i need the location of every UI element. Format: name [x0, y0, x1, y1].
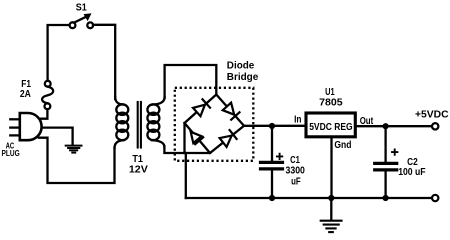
- svg-text:3300: 3300: [286, 166, 306, 177]
- svg-text:Diode: Diode: [227, 61, 255, 72]
- svg-text:S1: S1: [76, 3, 88, 14]
- diode D2 (upper-right): [223, 103, 240, 120]
- diode D4 (lower-right): [220, 130, 237, 147]
- svg-text:Gnd: Gnd: [334, 140, 351, 151]
- transformer T1: [115, 97, 165, 148]
- junction dot (In rail / C1): [269, 123, 275, 129]
- junction dot (Out rail / C2): [383, 123, 389, 129]
- svg-text:7805: 7805: [319, 98, 343, 109]
- regulator U1 box: [306, 113, 355, 137]
- junction dot (bottom rail / ground): [328, 195, 334, 201]
- svg-text:PLUG: PLUG: [2, 149, 20, 158]
- AC plug body: [20, 113, 42, 140]
- wire plug to chassis ground: [42, 128, 73, 145]
- capacitor C2: [375, 126, 398, 198]
- wire U1 gnd down: [330, 138, 332, 197]
- secondary winding: [147, 104, 159, 115]
- svg-text:T1: T1: [132, 154, 143, 165]
- wire secondary bottom to bridge: [164, 146, 210, 153]
- fuse F1: [42, 81, 53, 109]
- wire U1 out to +5VDC terminal: [358, 125, 431, 127]
- svg-text:2A: 2A: [20, 89, 31, 100]
- svg-text:12V: 12V: [129, 165, 148, 176]
- svg-text:U1: U1: [325, 87, 335, 98]
- primary bottom lead: [115, 140, 125, 148]
- capacitor C1: [261, 126, 283, 198]
- secondary top lead: [152, 97, 165, 105]
- primary winding: [116, 104, 128, 115]
- plug prong 2: [10, 126, 19, 128]
- diode D1 (upper-left): [193, 99, 210, 116]
- wire bridge left vertex down: [183, 123, 185, 153]
- wire S1 left to fuse: [48, 25, 69, 81]
- svg-text:100 uF: 100 uF: [398, 167, 425, 178]
- terminal bottom right: [432, 195, 438, 201]
- ground (chassis near plug): [66, 146, 82, 153]
- svg-text:Bridge: Bridge: [227, 72, 259, 83]
- diode D3 (lower-left): [191, 132, 204, 144]
- switch S1: [70, 14, 94, 28]
- svg-text:5VDC REG: 5VDC REG: [309, 122, 353, 133]
- wire S1 right to transformer primary top: [93, 25, 115, 99]
- svg-text:C1: C1: [290, 155, 300, 166]
- plug prong 1: [10, 118, 19, 120]
- secondary bottom lead: [152, 140, 165, 147]
- wire bridge right to U1 In: [244, 125, 306, 127]
- junction dot (bottom rail / C2): [383, 195, 389, 201]
- terminal +5VDC: [432, 123, 438, 129]
- wire plug bottom to primary bottom: [39, 138, 115, 183]
- primary top lead: [115, 97, 124, 105]
- wire secondary top to bridge top: [165, 65, 217, 98]
- ground (main, bottom): [321, 198, 342, 232]
- wire bridge bottom to bottom rail: [185, 153, 187, 198]
- junction dot (bottom rail / C1): [269, 195, 275, 201]
- svg-text:In: In: [294, 115, 301, 126]
- bottom rail: [186, 197, 431, 199]
- svg-text:uF: uF: [291, 176, 301, 187]
- svg-text:+5VDC: +5VDC: [415, 110, 449, 121]
- core: [137, 102, 139, 148]
- dotted bridge box: [175, 88, 254, 161]
- wire fuse to plug: [39, 109, 48, 119]
- plug prong 3: [10, 134, 19, 136]
- bridge diamond edges: [185, 95, 245, 154]
